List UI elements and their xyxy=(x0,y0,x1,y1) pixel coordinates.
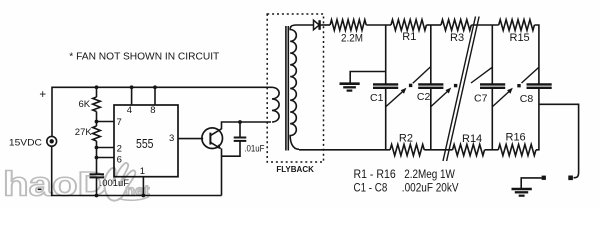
wire R14 to R16 xyxy=(485,149,499,151)
wire R1 to R3 xyxy=(426,24,441,26)
wire pin 3 to base xyxy=(178,138,203,140)
transformer T1 core xyxy=(286,26,288,151)
capacitor C1 xyxy=(373,84,398,87)
wire R2 to R14 xyxy=(424,149,452,151)
wire diode to 2.2M xyxy=(321,24,331,26)
wire ground 2 xyxy=(521,178,541,188)
node junction bottom rail pin1 xyxy=(142,194,146,198)
wire pin 1 to bottom rail xyxy=(142,177,144,196)
svg-text:haoD: haoD xyxy=(3,165,108,203)
wire column 4 lower xyxy=(538,88,540,148)
node junction bottom rail cap xyxy=(95,194,99,198)
capacitor .01uF xyxy=(234,138,247,141)
wire cap .01uF bottom lead xyxy=(222,141,241,156)
wire flyback to R2 xyxy=(299,149,390,151)
wire column B lower xyxy=(430,88,432,150)
svg-text:net: net xyxy=(125,183,149,200)
op-amp U1 555 timer box xyxy=(114,105,178,177)
wire R15 to column 4 xyxy=(534,25,539,84)
wire tick to pin 6 xyxy=(97,157,115,159)
resistor 27K xyxy=(93,126,101,141)
spark gap 2 xyxy=(431,67,492,106)
wire column A upper xyxy=(385,25,387,84)
wire R3 to R15 xyxy=(471,24,498,26)
wire column C lower xyxy=(491,88,493,150)
spark gap 3 xyxy=(493,68,539,107)
resistor R1 xyxy=(391,20,426,31)
wire left rail upper xyxy=(52,87,272,136)
wire 2.2M to R1 xyxy=(366,24,391,26)
node junction pin6 xyxy=(95,156,99,160)
wire left rail lower xyxy=(52,146,222,195)
diode D1 xyxy=(314,20,320,30)
node junction top rail 6K xyxy=(95,85,99,89)
wire cap .01uF top lead xyxy=(239,122,241,138)
wire collector up xyxy=(222,122,272,129)
wire tick to pin 7 xyxy=(97,121,115,123)
terminal ground side xyxy=(542,176,546,180)
wire cap to bottom rail xyxy=(96,177,98,195)
wire 6K column top xyxy=(96,87,98,97)
wire R16 to column 4 xyxy=(536,148,539,150)
node junction pin7 xyxy=(95,120,99,124)
capacitor C8 xyxy=(527,84,552,87)
ground symbol right xyxy=(512,189,532,196)
break line 1 xyxy=(443,17,476,162)
node junction top rail pin8 xyxy=(153,85,157,89)
capacitor .001uF xyxy=(90,174,105,177)
flyback dashed box xyxy=(267,14,323,162)
resistor R15 xyxy=(499,20,535,31)
transistor Q1 xyxy=(202,128,223,149)
break line 2 xyxy=(447,17,480,162)
transformer T1 primary winding xyxy=(272,87,279,122)
wire tick to pin 2 xyxy=(97,147,115,149)
resistor R3 xyxy=(441,20,471,31)
capacitor C2 xyxy=(418,84,443,87)
resistor 2.2M xyxy=(330,20,366,31)
connector J1 15VDC input xyxy=(47,136,57,146)
resistor 6K xyxy=(93,97,101,112)
resistor R16 xyxy=(498,144,536,155)
wire pin 4 xyxy=(131,87,133,105)
node junction collector cap xyxy=(238,120,242,124)
wire column B upper xyxy=(430,25,432,84)
wire HV output xyxy=(539,104,579,177)
wire ground branch xyxy=(350,72,386,83)
transformer T1 secondary winding xyxy=(290,25,313,149)
capacitor C7 xyxy=(480,84,505,87)
wire emitter down xyxy=(221,148,223,195)
resistor R2 xyxy=(390,144,424,155)
spark gap 1 xyxy=(386,67,430,107)
node - label xyxy=(38,189,42,191)
terminal HV output xyxy=(568,176,573,181)
resistor R14 xyxy=(453,144,485,155)
wire pin 8 xyxy=(154,87,156,105)
wire column A lower xyxy=(385,88,387,150)
wire 6K to 27K xyxy=(96,112,98,127)
wire column C upper xyxy=(491,25,493,84)
node junction top rail pin4 xyxy=(130,85,134,89)
wire 27K to cap xyxy=(96,141,98,174)
node junction pin2 xyxy=(95,146,99,150)
ground symbol left xyxy=(340,84,360,91)
